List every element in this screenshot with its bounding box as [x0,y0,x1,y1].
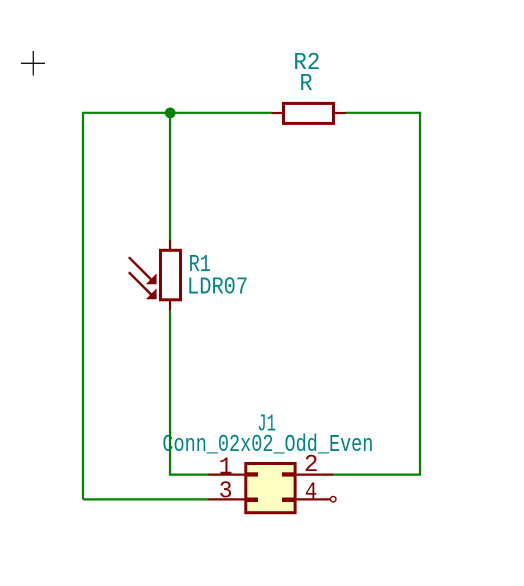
svg-text:Conn_02x02_Odd_Even: Conn_02x02_Odd_Even [162,432,373,459]
svg-text:4: 4 [305,479,318,506]
svg-text:3: 3 [219,479,233,506]
svg-text:R: R [300,71,313,98]
svg-text:LDR07: LDR07 [187,274,248,301]
